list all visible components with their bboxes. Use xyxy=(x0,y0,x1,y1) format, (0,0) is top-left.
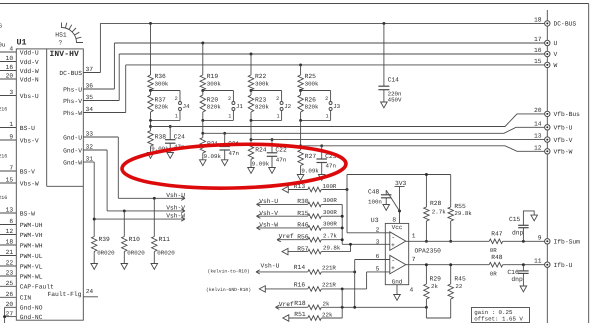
svg-text:1: 1 xyxy=(412,233,416,240)
svg-text:CAP-Fault: CAP-Fault xyxy=(20,284,54,291)
wire pin6 bus xyxy=(354,260,356,308)
U1 pin 32 Gnd-V xyxy=(83,149,107,151)
junction R28 bottom on pin1 line xyxy=(425,240,428,243)
svg-text:4: 4 xyxy=(410,286,414,293)
svg-text:R55: R55 xyxy=(454,203,466,210)
wire non-inverting input bus xyxy=(341,204,343,244)
svg-text:dnp: dnp xyxy=(511,276,523,283)
wire Gnd-NO/Gnd-NC join to bottom edge xyxy=(4,307,6,323)
jumper J3 pin 2 circle xyxy=(329,102,332,105)
junction R24 top xyxy=(250,138,253,141)
capacitor C21 47n xyxy=(224,133,226,146)
svg-text:R38: R38 xyxy=(155,134,167,141)
U3 pin 4 wire and number xyxy=(396,285,398,295)
resistor R11 0R020 xyxy=(153,198,155,236)
svg-text:300k: 300k xyxy=(207,80,221,87)
wire Vfb-V line xyxy=(251,139,545,141)
U1 pin 25 CAP-Fault xyxy=(0,285,16,287)
resistor R55 29.8k xyxy=(450,175,452,208)
ground under C48 xyxy=(383,205,390,211)
connector pin 13 Vfb-V xyxy=(545,137,550,142)
svg-text:32: 32 xyxy=(86,144,94,151)
svg-text:Ifb-Sum: Ifb-Sum xyxy=(554,239,581,246)
svg-text:2: 2 xyxy=(276,96,279,102)
svg-text:17: 17 xyxy=(534,36,542,43)
svg-text:16: 16 xyxy=(534,47,542,54)
svg-text:820k: 820k xyxy=(255,104,269,111)
capacitor C23 47n xyxy=(321,146,323,159)
junction R21 top xyxy=(201,132,204,135)
connector pin 17 U xyxy=(545,40,550,45)
wire Phs-W riser from pin 34 xyxy=(125,65,127,113)
svg-text:0R020: 0R020 xyxy=(97,250,115,257)
junction C48 tap xyxy=(398,210,401,213)
U1 inner divider INV-HV section xyxy=(46,49,48,186)
svg-text:6: 6 xyxy=(376,253,380,260)
svg-text:?: ? xyxy=(59,40,63,47)
svg-text:15: 15 xyxy=(6,177,14,184)
ground under R38 xyxy=(147,153,154,159)
resistor R26 820k xyxy=(300,91,302,96)
svg-text:4: 4 xyxy=(9,46,13,53)
svg-text:12: 12 xyxy=(6,228,14,235)
U1 pin 18 PWM-WH xyxy=(0,244,16,246)
junction R29 on pin7 line xyxy=(425,263,428,266)
connector pin 18 DC-BUS xyxy=(545,21,550,26)
resistor R15 300R xyxy=(257,214,261,216)
U1 pin 34 Phs-W xyxy=(83,112,125,114)
junction R27 top xyxy=(299,144,302,147)
svg-text:R57: R57 xyxy=(297,245,309,252)
svg-text:22: 22 xyxy=(6,260,14,267)
U1 pin 26 CIN xyxy=(0,296,16,298)
svg-text:R47: R47 xyxy=(491,231,503,238)
resistor R47 0R xyxy=(489,239,503,244)
svg-text:2: 2 xyxy=(376,226,380,233)
wire Phs-V riser from pin 35 xyxy=(118,54,120,101)
resistor R23 820k xyxy=(250,91,252,96)
resistor R13 100R xyxy=(288,189,308,191)
svg-text:R56: R56 xyxy=(297,234,309,241)
red annotation ellipse xyxy=(122,142,347,191)
svg-text:2.7k: 2.7k xyxy=(323,233,337,240)
jumper J4 pin 2 circle xyxy=(179,102,182,105)
svg-text:Gnd-W: Gnd-W xyxy=(63,159,82,166)
svg-text:820k: 820k xyxy=(207,104,221,111)
jumper J2 pin 1 circle xyxy=(280,108,283,111)
ground under R39 xyxy=(91,264,98,270)
svg-text:BS-U: BS-U xyxy=(20,125,35,132)
svg-text:27: 27 xyxy=(6,310,14,317)
svg-text:13: 13 xyxy=(534,133,542,140)
junction R45 on pin7 line xyxy=(449,263,452,266)
resistor R57 29.8k xyxy=(282,248,288,254)
resistor R56 2.7k xyxy=(277,238,281,240)
svg-text:R36: R36 xyxy=(155,73,167,80)
resistor R18 2k xyxy=(276,305,280,307)
svg-text:47n: 47n xyxy=(276,156,286,163)
resistor R28 2.7k xyxy=(425,175,427,208)
U1 pin 23 PWM-WL xyxy=(0,275,16,277)
junction R19 top on bus xyxy=(201,42,204,45)
svg-text:12: 12 xyxy=(534,144,542,151)
svg-text:300R: 300R xyxy=(323,209,337,216)
connector vertical bus xyxy=(546,10,548,323)
U1 pin 12 PWM-VH xyxy=(0,234,16,236)
U1 pin 9 Vbs-V xyxy=(0,139,16,141)
svg-text:1: 1 xyxy=(228,113,231,119)
wire op-amp B output to Ifb-U xyxy=(406,264,489,266)
wire DC-BUS riser from pin 37 xyxy=(99,23,101,72)
ground under R24 xyxy=(248,168,255,174)
svg-text:Vfb-V: Vfb-V xyxy=(554,137,573,144)
junction R26 bottom xyxy=(299,119,302,122)
junction C15 on output xyxy=(522,240,525,243)
wire pin5 riser xyxy=(366,272,368,289)
svg-text:23: 23 xyxy=(6,270,14,277)
svg-text:R25: R25 xyxy=(305,73,317,80)
svg-text:J2: J2 xyxy=(284,103,291,110)
junction R14 on pin6 bus xyxy=(353,270,356,273)
resistor R45 22 xyxy=(450,265,452,284)
svg-text:R29: R29 xyxy=(430,276,442,283)
svg-text:Gnd-NO: Gnd-NO xyxy=(20,305,43,312)
svg-text:26: 26 xyxy=(6,291,14,298)
wire R26 to output node xyxy=(300,120,302,145)
svg-text:16: 16 xyxy=(6,64,14,71)
svg-text:Vdd-V: Vdd-V xyxy=(20,59,39,66)
junction R39 top xyxy=(93,218,96,221)
jumper J2 pin 2 circle xyxy=(280,102,283,105)
resistor R46 300R xyxy=(257,226,261,228)
svg-text:1: 1 xyxy=(175,113,178,119)
junction bottom node R29 xyxy=(425,306,428,309)
svg-text:24: 24 xyxy=(86,288,94,295)
svg-text:13: 13 xyxy=(6,207,14,214)
svg-text:15: 15 xyxy=(534,58,542,65)
U1 pin 21 PWM-UL xyxy=(0,255,16,257)
svg-text:Ifb-U: Ifb-U xyxy=(554,262,573,269)
svg-text:R26: R26 xyxy=(305,96,317,103)
resistor R27 9.09k xyxy=(300,146,302,150)
capacitor C22 47n xyxy=(271,140,273,153)
svg-text:300R: 300R xyxy=(323,221,337,228)
junction R38 top xyxy=(149,125,152,128)
svg-text:R46: R46 xyxy=(297,222,309,229)
junction R25/R26 xyxy=(299,89,302,92)
ground under R27 xyxy=(297,175,304,181)
wire feedback node riser xyxy=(346,175,348,190)
svg-text:R45: R45 xyxy=(454,276,466,283)
svg-text:R24: R24 xyxy=(255,147,267,154)
svg-text:2k: 2k xyxy=(431,283,438,290)
svg-text:+: + xyxy=(391,265,395,272)
Vsh-W arrow xyxy=(181,217,185,219)
junction R15 on bus xyxy=(341,215,344,218)
resistor R37 820k xyxy=(150,91,152,96)
wire DC-BUS horizontal to connector pin 18 xyxy=(100,22,544,24)
svg-text:34: 34 xyxy=(86,106,94,113)
svg-text:33: 33 xyxy=(86,131,94,138)
wire 3V3 to Vcc pin 8 xyxy=(399,187,401,224)
svg-text:0R020: 0R020 xyxy=(127,250,145,257)
svg-text:Phs-U: Phs-U xyxy=(63,86,82,93)
svg-text:1: 1 xyxy=(325,113,328,119)
svg-text:216: 216 xyxy=(0,107,7,113)
svg-text:R20: R20 xyxy=(207,96,219,103)
svg-text:Gnd-NC: Gnd-NC xyxy=(20,314,43,321)
ground under R10 xyxy=(121,264,128,270)
svg-text:C15: C15 xyxy=(509,216,521,223)
U1 pin 24 Fault-Flg xyxy=(83,296,98,298)
svg-text:R28: R28 xyxy=(430,200,442,207)
junction R13/pin2 node xyxy=(346,188,349,191)
svg-text:820k: 820k xyxy=(305,104,319,111)
U1 pin 37 DC-BUS xyxy=(83,72,100,74)
junction R10 top xyxy=(123,209,126,212)
svg-text:9.09k: 9.09k xyxy=(204,153,222,160)
U1 pin 6 PWM-UH xyxy=(0,224,16,226)
svg-text:18: 18 xyxy=(6,239,14,246)
ground under C22 xyxy=(269,168,276,174)
ground under C14 xyxy=(381,102,388,108)
wire R51 riser to bottom node xyxy=(341,289,343,318)
svg-text:Vsh-U: Vsh-U xyxy=(259,198,278,205)
svg-text:36: 36 xyxy=(86,83,94,90)
U1 pin 16 Vdd-W xyxy=(0,70,16,72)
svg-text:2k: 2k xyxy=(323,300,330,307)
net port arrow R13 xyxy=(282,186,288,192)
wire C14 to DC-BUS xyxy=(382,22,385,25)
jumper J1 loop wire xyxy=(203,90,234,92)
svg-text:PWM-VH: PWM-VH xyxy=(20,232,43,239)
U1 pin 10 Vdd-V xyxy=(0,61,16,63)
junction R23 bottom xyxy=(250,119,253,122)
svg-text:2: 2 xyxy=(325,96,328,102)
svg-text:2: 2 xyxy=(175,96,178,102)
svg-text:300k: 300k xyxy=(255,80,269,87)
svg-text:47n: 47n xyxy=(229,150,239,157)
svg-text:100R: 100R xyxy=(323,183,337,190)
ground under C23 xyxy=(318,175,325,181)
junction R55 bottom on pin1 line xyxy=(449,240,452,243)
ground under C21 xyxy=(221,160,228,166)
resistor R24 9.09k xyxy=(250,140,252,144)
wire R45 bottom loop xyxy=(426,317,450,319)
jumper J3 loop wire xyxy=(301,90,331,92)
connector pin 12 Vfb-W xyxy=(545,149,550,154)
wire Phs-U riser from pin 36 xyxy=(113,43,115,89)
svg-text:DC-BUS: DC-BUS xyxy=(59,70,82,77)
svg-text:-: - xyxy=(391,234,395,241)
svg-text:BS-W: BS-W xyxy=(20,210,35,217)
resistor R39 0R020 xyxy=(93,219,95,236)
svg-text:5: 5 xyxy=(376,266,380,273)
wire R37 to output node xyxy=(150,120,152,126)
svg-text:U: U xyxy=(554,40,558,47)
svg-text:1: 1 xyxy=(276,113,279,119)
resistor R38 9.09k xyxy=(150,127,152,131)
wire op-amp A output to Ifb-Sum xyxy=(406,240,489,242)
svg-text:R15: R15 xyxy=(297,210,309,217)
wire Vfb-W line xyxy=(301,146,545,152)
svg-text:3: 3 xyxy=(376,238,380,245)
ground under R21 xyxy=(200,160,207,166)
svg-text:(kelvin-to-R10): (kelvin-to-R10) xyxy=(208,268,250,274)
svg-text:Vsh-U: Vsh-U xyxy=(166,192,185,199)
svg-text:C14: C14 xyxy=(388,77,400,84)
resistor R51 22k xyxy=(283,315,289,321)
svg-text:8: 8 xyxy=(392,217,396,224)
resistor R48 0R xyxy=(489,262,503,267)
svg-text:3V3: 3V3 xyxy=(395,180,407,187)
svg-text:216: 216 xyxy=(0,154,7,160)
U1 pin 20 Vdd-N xyxy=(0,78,16,80)
connector pin 11 Ifb-U xyxy=(545,262,550,267)
svg-text:Vsh-W: Vsh-W xyxy=(166,213,185,220)
svg-text:2.7k: 2.7k xyxy=(432,209,446,216)
resistor R29 2k xyxy=(425,265,427,284)
svg-text:Vsh-V: Vsh-V xyxy=(259,210,278,217)
svg-text:V: V xyxy=(554,51,558,58)
svg-text:S: S xyxy=(0,23,3,30)
svg-text:R11: R11 xyxy=(159,236,171,243)
svg-text:J1: J1 xyxy=(236,103,243,110)
wire lead down to R22 xyxy=(250,54,252,75)
resistor R36 300k xyxy=(148,75,153,90)
svg-text:Phs-V: Phs-V xyxy=(63,98,82,105)
svg-text:29.8k: 29.8k xyxy=(323,244,341,251)
junction R56 on bus xyxy=(341,238,344,241)
svg-text:R37: R37 xyxy=(155,96,167,103)
svg-text:0R020: 0R020 xyxy=(157,250,175,257)
svg-text:0R: 0R xyxy=(490,247,497,254)
jumper J1 pin 1 circle xyxy=(232,108,235,111)
svg-text:Gnd: Gnd xyxy=(392,279,403,286)
svg-text:R18: R18 xyxy=(294,300,306,307)
U1 pin 3 Vbs-U xyxy=(0,95,16,97)
ground under U3 pin 4 xyxy=(394,295,401,301)
svg-text:22k: 22k xyxy=(322,311,333,318)
svg-text:216: 216 xyxy=(0,195,7,201)
U1 pin 1 BS-U xyxy=(0,127,16,129)
svg-text:Phs-W: Phs-W xyxy=(63,110,82,117)
svg-text:9.09k: 9.09k xyxy=(301,168,319,175)
svg-text:Gnd-U: Gnd-U xyxy=(63,134,82,141)
capacitor C48 100n xyxy=(385,190,387,195)
svg-text:PWM-UH: PWM-UH xyxy=(20,222,43,229)
svg-text:R22: R22 xyxy=(255,73,267,80)
heatsink HS1 symbol xyxy=(62,23,84,43)
svg-text:47n: 47n xyxy=(326,163,336,170)
svg-text:DC-BUS: DC-BUS xyxy=(554,21,577,28)
svg-text:C24: C24 xyxy=(174,134,186,141)
ground above C15 xyxy=(531,215,538,221)
U1 pin 4 Vdd-U xyxy=(0,51,16,53)
svg-text:Vref: Vref xyxy=(279,301,294,308)
junction R22 top on bus xyxy=(250,53,253,56)
svg-text:Fault-Flg: Fault-Flg xyxy=(47,291,81,298)
junction R57 on pin3 wire xyxy=(349,243,352,246)
svg-text:7: 7 xyxy=(9,165,13,172)
svg-text:Vref: Vref xyxy=(279,233,294,240)
junction R36 top on bus xyxy=(149,22,152,25)
svg-text:Vbs-V: Vbs-V xyxy=(20,137,39,144)
svg-text:Vcc: Vcc xyxy=(392,224,403,231)
wire Vfb-U line xyxy=(203,127,545,133)
gain/offset note box xyxy=(472,308,530,323)
svg-text:100n: 100n xyxy=(368,199,382,206)
svg-text:Vdd-N: Vdd-N xyxy=(20,76,39,83)
svg-text:1: 1 xyxy=(9,121,13,128)
svg-text:11: 11 xyxy=(534,258,542,265)
svg-text:PWM-WL: PWM-WL xyxy=(20,273,43,280)
wire Vfb-Bus line xyxy=(151,114,545,127)
svg-text:Vfb-U: Vfb-U xyxy=(554,125,573,132)
svg-text:R19: R19 xyxy=(207,73,219,80)
wire lead down to R36 xyxy=(150,23,152,75)
svg-text:Vsh-U: Vsh-U xyxy=(261,263,280,270)
svg-text:10: 10 xyxy=(6,55,14,62)
U1 pin 20 Gnd-NO xyxy=(5,306,17,308)
U1 pin 27 Gnd-NC xyxy=(5,316,17,318)
junction R22/R23 xyxy=(250,89,253,92)
connector pin 15 W xyxy=(545,62,550,67)
svg-text:R10: R10 xyxy=(129,236,141,243)
Vsh-V arrow xyxy=(181,209,185,211)
svg-text:0u: 0u xyxy=(0,41,6,48)
svg-text:Vsh-W: Vsh-W xyxy=(259,222,278,229)
svg-text:20: 20 xyxy=(6,73,14,80)
U1 pin 35 Phs-V xyxy=(83,100,119,102)
svg-text:HS1: HS1 xyxy=(55,31,67,38)
svg-text:Vbs-W: Vbs-W xyxy=(20,180,39,187)
wire V horizontal to connector pin 16 xyxy=(119,53,544,55)
jumper J3 pin 1 circle xyxy=(329,108,332,111)
junction R19/R20 xyxy=(201,89,204,92)
svg-text:31: 31 xyxy=(86,156,94,163)
resistor R21 9.09k xyxy=(202,133,204,137)
svg-text:450V: 450V xyxy=(388,97,402,104)
wire U horizontal to connector pin 17 xyxy=(114,42,544,44)
svg-text:(kelvin-GND-R10): (kelvin-GND-R10) xyxy=(206,287,251,293)
svg-text:U1: U1 xyxy=(17,38,27,48)
jumper J1 pin 2 circle xyxy=(232,102,235,105)
U1 pin 13 BS-W xyxy=(0,212,16,214)
svg-text:9: 9 xyxy=(538,234,542,241)
svg-text:9: 9 xyxy=(9,134,13,141)
svg-text:21: 21 xyxy=(6,249,14,256)
svg-text:300k: 300k xyxy=(155,80,169,87)
resistor R14 221R xyxy=(256,270,260,272)
junction on Gnd-NC wire xyxy=(3,315,6,318)
svg-text:9.09k: 9.09k xyxy=(252,161,270,168)
svg-text:C22: C22 xyxy=(275,147,287,154)
svg-text:+: + xyxy=(391,242,395,249)
junction R28 top xyxy=(425,173,428,176)
U1 pin 22 PWM-VL xyxy=(0,265,16,267)
wire R20 to output node xyxy=(202,120,204,133)
supply 3V3 xyxy=(395,186,405,188)
jumper J4 pin 1 circle xyxy=(179,108,182,111)
svg-text:offset: 1.65 V: offset: 1.65 V xyxy=(474,316,523,323)
junction R11 top xyxy=(153,197,156,200)
wire Vsh-V from Gnd-V xyxy=(106,150,108,211)
svg-text:dnp: dnp xyxy=(512,230,524,237)
wire R57 riser xyxy=(350,244,352,251)
svg-text:Vsh-V: Vsh-V xyxy=(166,205,185,212)
svg-text:25: 25 xyxy=(6,280,14,287)
